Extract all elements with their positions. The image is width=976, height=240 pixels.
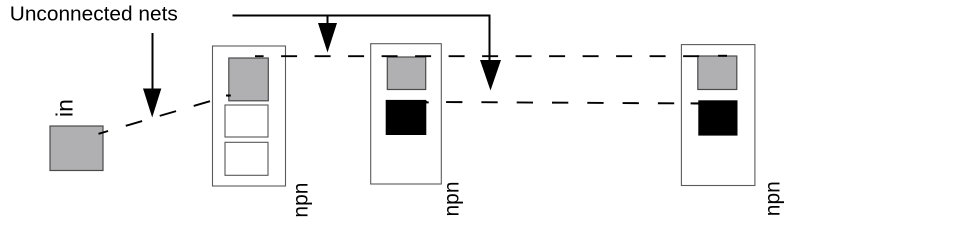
transistor Q1 (npn): body outline [213, 46, 286, 186]
Q1 pin 1 connection tick [226, 95, 231, 97]
Q3 pin 2 (black square) [699, 101, 737, 135]
Q3 pin 1 (gray square) [698, 56, 737, 90]
unconnected net: in to Q1 (dashed flight line) [99, 96, 230, 134]
annotation arrow 2 (to net Q1-Q3) [318, 16, 337, 53]
annotation arrow 1 (to net in-Q1) [143, 33, 161, 118]
Q1 pin 2 (white square) [225, 105, 268, 137]
svg-text:npn: npn [289, 183, 312, 218]
transistor Q3 (npn): body outline [681, 45, 755, 186]
Q2 pin 1 (gray square) [387, 57, 425, 90]
svg-text:npn: npn [440, 181, 463, 216]
Q2 pin 2 (black square) [386, 100, 426, 134]
annotation arrow 3 (to net Q2-Q3) [480, 15, 501, 91]
annotation leader line (top) [233, 15, 491, 17]
Q2 pin 2 connection tick [424, 101, 429, 103]
svg-text:npn: npn [761, 181, 784, 216]
transistor Q2 (npn): body outline [371, 44, 442, 184]
unconnected net: Q2 to Q3 (dashed flight line) [426, 102, 700, 104]
svg-text:in: in [51, 99, 77, 117]
svg-text:Unconnected nets: Unconnected nets [10, 3, 178, 26]
port in: pin square [50, 126, 103, 171]
unconnected net: Q1 to Q3 (dashed flight line) [255, 55, 700, 57]
Q1 pin 1 (gray square) [229, 58, 268, 101]
Q3 pin 1 tick [718, 55, 727, 57]
Q3 pin 2 connection tick [691, 102, 700, 104]
Q1 pin 3 (white square) [225, 142, 268, 175]
